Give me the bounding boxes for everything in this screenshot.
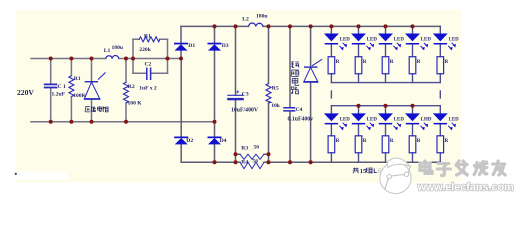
- svg-text:D4: D4: [220, 138, 227, 144]
- svg-text:LHD: LHD: [421, 118, 432, 123]
- svg-text:0.1uF400v: 0.1uF400v: [288, 117, 314, 123]
- LED symbols bank2: [324, 113, 347, 129]
- watermark logo circle: [380, 158, 411, 194]
- svg-text:L: L: [373, 168, 377, 175]
- wire D1 column: [180, 26, 182, 58]
- svg-text:D3: D3: [222, 43, 229, 49]
- svg-text:R: R: [390, 138, 394, 144]
- svg-text:15: 15: [360, 168, 366, 175]
- label total groups: gong 15 zu LED: [353, 168, 373, 174]
- wire bank1 column stubs: [330, 26, 332, 82]
- svg-text:LED: LED: [449, 38, 460, 43]
- resistor R5 zigzag: [266, 84, 271, 104]
- wire R3 branch stubs: [236, 153, 269, 155]
- svg-text:C2: C2: [145, 62, 152, 68]
- svg-text:LED: LED: [340, 118, 351, 123]
- wire DC+ top rail: [181, 25, 440, 27]
- svg-text:R4: R4: [241, 159, 248, 165]
- svg-text:1uF x 2: 1uF x 2: [139, 85, 157, 91]
- svg-text:LED: LED: [394, 38, 405, 43]
- svg-text:LED: LED: [367, 118, 378, 123]
- svg-text:180u: 180u: [256, 13, 268, 19]
- svg-text:R3: R3: [241, 145, 248, 151]
- inductor L1: [106, 56, 119, 59]
- svg-text:56: 56: [253, 158, 259, 164]
- capacitor C4: [283, 108, 295, 111]
- diode D1: [174, 43, 188, 51]
- svg-text:R5: R5: [272, 86, 279, 92]
- svg-text:220k: 220k: [139, 47, 151, 53]
- capacitor C2: [147, 68, 151, 81]
- svg-text:LED: LED: [394, 118, 405, 123]
- resistor boxes bank1: [328, 57, 444, 74]
- capacitor C1: [44, 84, 58, 87]
- svg-text:R: R: [363, 138, 367, 144]
- wire C4 column: [289, 26, 291, 162]
- svg-text:R: R: [445, 59, 449, 65]
- svg-text:C 1: C 1: [58, 84, 66, 90]
- diode D3: [208, 43, 222, 51]
- wire RC box right side: [167, 39, 169, 73]
- wire R2 column: [125, 59, 127, 122]
- wire DC- return line: [181, 161, 440, 163]
- resistor R4 zigzag: [240, 162, 264, 169]
- wire C2 loop horizontal stubs: [133, 72, 168, 74]
- wire bank2 top rail: [331, 105, 440, 107]
- svg-text:L1: L1: [104, 48, 111, 54]
- svg-text:R1: R1: [144, 34, 151, 40]
- label regulator chinese vertical (drawn glyphs): [291, 61, 299, 94]
- svg-text:100K: 100K: [73, 93, 86, 99]
- svg-text:R2: R2: [128, 84, 135, 90]
- svg-text:LED: LED: [367, 38, 378, 43]
- svg-text:220V: 220V: [17, 88, 34, 97]
- svg-text:C3: C3: [242, 92, 249, 98]
- svg-text:R: R: [390, 59, 394, 65]
- svg-text:R1: R1: [74, 76, 81, 82]
- resistor R1 vertical zigzag: [69, 76, 74, 97]
- diode D2: [174, 137, 188, 145]
- svg-text:LED: LED: [449, 118, 460, 123]
- label varistor chinese (drawn glyphs): [85, 106, 108, 112]
- svg-text:R: R: [336, 59, 340, 65]
- wire varistor column: [91, 59, 93, 122]
- varistor symbol: [84, 72, 106, 99]
- svg-text:10uF/400V: 10uF/400V: [231, 107, 259, 113]
- svg-text:1.2uF: 1.2uF: [52, 91, 66, 97]
- wire D3 column: [214, 26, 216, 121]
- inductor L2: [249, 23, 264, 26]
- wire R5 column: [268, 26, 270, 162]
- resistor R2 zigzag: [124, 82, 129, 103]
- svg-text:www.elecfans.com: www.elecfans.com: [417, 182, 514, 194]
- svg-text:180u: 180u: [112, 45, 124, 51]
- svg-text:R: R: [417, 59, 421, 65]
- resistor R1 220k horizontal zigzag: [139, 37, 160, 42]
- svg-text:D2: D2: [186, 138, 193, 144]
- wire D2 column: [180, 59, 182, 163]
- svg-text:C4: C4: [296, 107, 303, 113]
- diode D4: [208, 137, 222, 145]
- wire AC2 bottom rail: [31, 121, 215, 123]
- svg-text:LED: LED: [421, 38, 432, 43]
- wire C1 column: [50, 59, 52, 122]
- wire bank1 bottom line: [331, 82, 440, 84]
- wire top loop horizontal stubs: [133, 38, 168, 40]
- LED array wires: [331, 26, 440, 162]
- capacitor C3 electrolytic: [227, 90, 244, 100]
- wire zener column: [310, 26, 312, 162]
- svg-text:L2: L2: [242, 17, 249, 23]
- svg-text:D1: D1: [188, 43, 195, 49]
- resistor boxes bank2: [328, 136, 444, 153]
- svg-text:56: 56: [254, 144, 260, 150]
- wire D4 column: [214, 122, 216, 162]
- wire inter-bank dash right: [439, 91, 441, 98]
- watermark title: dian zi fa shao you (drawn glyphs): [420, 161, 505, 175]
- wire RC box left side: [132, 39, 134, 73]
- svg-text:R: R: [445, 138, 449, 144]
- wire bank2 column stubs: [330, 106, 332, 163]
- resistor R3 zigzag: [240, 154, 264, 159]
- svg-text:10k: 10k: [271, 103, 281, 109]
- wire R1 column: [70, 59, 72, 122]
- zener / regulator symbol: [303, 59, 322, 82]
- svg-text:R: R: [336, 138, 340, 144]
- svg-text:LED: LED: [340, 38, 351, 43]
- white patch bottom left: [16, 172, 67, 180]
- wire AC1 rail left: [31, 58, 181, 60]
- svg-text:R: R: [417, 138, 421, 144]
- wire C3 column: [235, 26, 237, 162]
- svg-text:R: R: [363, 59, 367, 65]
- wire inter-bank dash left: [330, 91, 332, 98]
- LED symbols bank1: [324, 34, 347, 50]
- svg-text:100 K: 100 K: [128, 100, 143, 106]
